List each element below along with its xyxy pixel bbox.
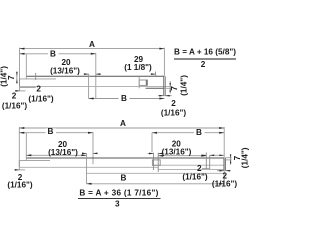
- svg-text:3: 3: [115, 199, 120, 208]
- svg-text:(1/16"): (1/16"): [212, 180, 238, 189]
- svg-text:(1/4"): (1/4"): [179, 75, 188, 96]
- svg-text:A: A: [89, 40, 95, 49]
- svg-text:7: 7: [170, 86, 179, 91]
- svg-text:(1 1/8"): (1 1/8"): [124, 63, 152, 72]
- svg-text:2: 2: [171, 99, 176, 108]
- svg-text:(1/16"): (1/16"): [2, 102, 28, 111]
- svg-text:(1/16"): (1/16"): [28, 95, 54, 104]
- svg-text:B: B: [121, 174, 127, 183]
- svg-text:B: B: [121, 94, 127, 103]
- svg-text:(1/4"): (1/4"): [241, 147, 250, 168]
- svg-text:B = A + 36 (1 7/16"): B = A + 36 (1 7/16"): [79, 188, 158, 197]
- svg-text:A: A: [120, 119, 126, 128]
- svg-text:2: 2: [12, 92, 17, 101]
- svg-text:B: B: [50, 50, 56, 59]
- svg-text:B: B: [48, 127, 54, 136]
- svg-text:B = A + 16 (5/8"): B = A + 16 (5/8"): [174, 48, 236, 57]
- svg-text:7: 7: [7, 75, 16, 80]
- svg-text:(1/16"): (1/16"): [7, 181, 33, 190]
- svg-text:(1/16"): (1/16"): [182, 173, 208, 182]
- svg-text:(13/16"): (13/16"): [162, 148, 192, 157]
- svg-text:(1/16"): (1/16"): [161, 108, 187, 117]
- svg-text:2: 2: [201, 60, 206, 69]
- svg-text:(13/16"): (13/16"): [50, 66, 80, 75]
- svg-text:B: B: [196, 128, 202, 137]
- svg-text:2: 2: [36, 84, 41, 93]
- svg-text:(13/16"): (13/16"): [48, 148, 78, 157]
